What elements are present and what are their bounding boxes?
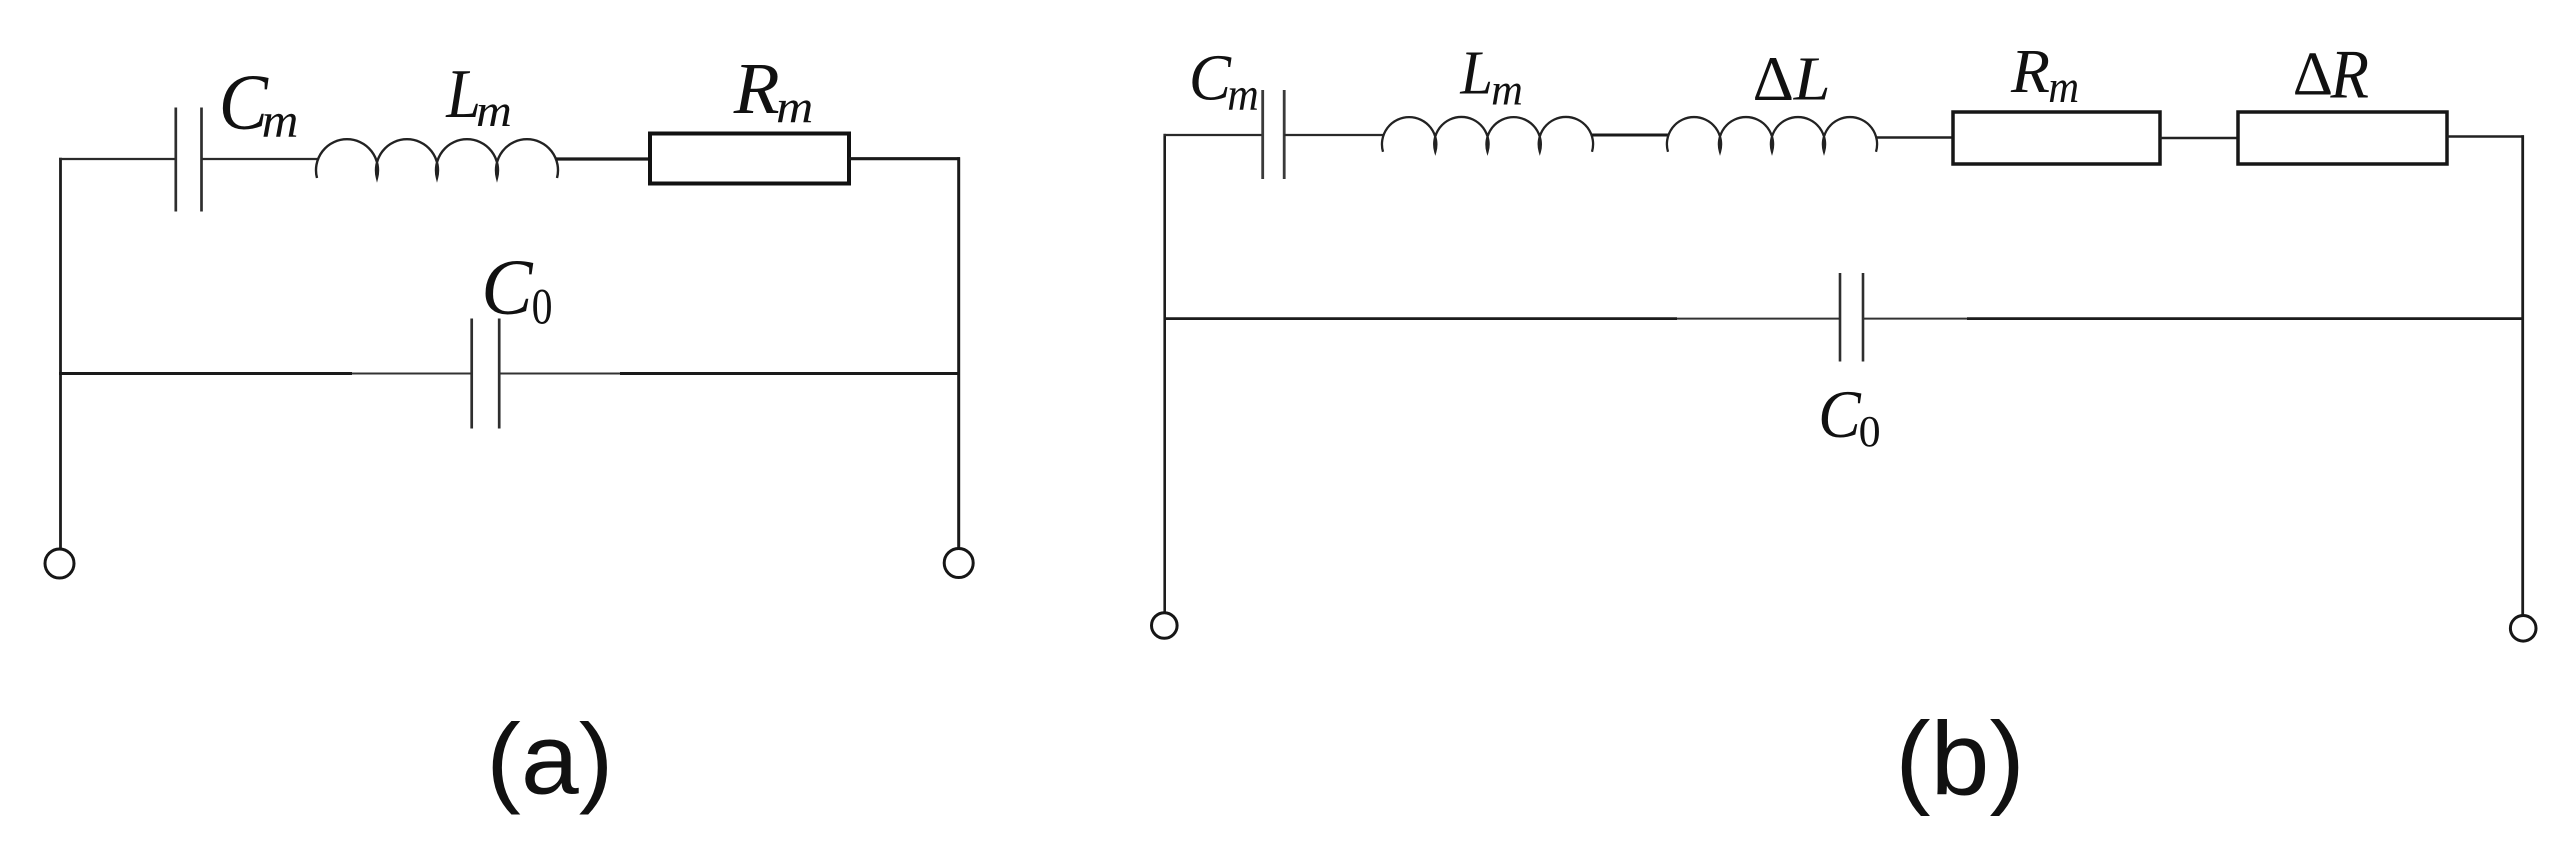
wire top (a): rail to Cm bbox=[59, 158, 176, 160]
label C0 (a) bbox=[481, 244, 552, 335]
svg-text:C: C bbox=[481, 244, 533, 331]
terminal circle (b) right bbox=[2510, 616, 2536, 642]
wire bottom (b): thick part to right rail bbox=[1967, 317, 2524, 320]
wire top (b): dR to right rail bbox=[2447, 135, 2524, 138]
terminal circle (b) left bbox=[1152, 613, 1178, 639]
wire top (a): Cm to Lm bbox=[202, 158, 319, 160]
svg-text:R: R bbox=[2010, 37, 2050, 106]
wire bottom (a): C0 to right, thin part bbox=[499, 373, 620, 375]
svg-text:C: C bbox=[1189, 40, 1232, 114]
wire bottom (a): thin part to C0 bbox=[352, 373, 472, 375]
inductor dL (b) bbox=[1667, 117, 1877, 152]
wire bottom (a): thick part to right rail bbox=[620, 372, 960, 375]
wire bottom (a): rail to C0, thick part bbox=[59, 372, 352, 375]
wire left rail (a) bbox=[59, 158, 62, 550]
resistor dR (b) bbox=[2238, 112, 2447, 164]
inductor Lm (a) bbox=[316, 139, 558, 178]
resistor Rm (a) bbox=[650, 134, 849, 184]
capacitor C0 (b) bbox=[1840, 273, 1863, 362]
wire bottom (b): C0 to right, thin part bbox=[1863, 318, 1967, 320]
wire top (b): dL to Rm bbox=[1876, 136, 1954, 139]
label Cm (a) bbox=[219, 59, 299, 147]
terminal circle (a) left bbox=[45, 549, 74, 578]
label Rm (b) bbox=[2010, 37, 2079, 112]
wire right rail (b) bbox=[2521, 135, 2524, 615]
svg-text:Δ: Δ bbox=[2293, 40, 2333, 109]
inductor Lm (b) bbox=[1382, 117, 1593, 152]
resistor Rm (b) bbox=[1953, 112, 2160, 164]
label dR (b) bbox=[2293, 36, 2369, 113]
terminal circle (a) right bbox=[944, 549, 973, 578]
svg-text:R: R bbox=[2330, 36, 2369, 113]
svg-text:m: m bbox=[262, 92, 299, 147]
svg-text:R: R bbox=[733, 49, 780, 130]
svg-text:m: m bbox=[1491, 65, 1523, 114]
wire top (b): Rm to dR bbox=[2160, 137, 2239, 140]
label Rm (a) bbox=[733, 49, 814, 133]
wire top (a): Rm to right rail bbox=[849, 157, 960, 160]
wire top (b): Lm to dL bbox=[1592, 134, 1668, 137]
capacitor Cm (a) bbox=[176, 108, 202, 212]
wire top (a): Lm to Rm bbox=[556, 157, 651, 160]
svg-text:m: m bbox=[1227, 69, 1259, 121]
svg-text:m: m bbox=[476, 86, 512, 137]
svg-text:L: L bbox=[1459, 39, 1493, 108]
svg-text:m: m bbox=[2048, 63, 2079, 112]
label Lm (b) bbox=[1459, 39, 1522, 115]
wire top (b): Cm to Lm bbox=[1284, 134, 1384, 136]
capacitor Cm (b) bbox=[1263, 90, 1285, 179]
svg-text:C: C bbox=[1818, 377, 1862, 452]
svg-text:m: m bbox=[776, 81, 813, 133]
wire top (b): rail to Cm bbox=[1164, 134, 1264, 136]
capacitor C0 (a) bbox=[472, 319, 500, 429]
label Lm (a) bbox=[445, 56, 512, 137]
label C0 (b) bbox=[1818, 377, 1881, 455]
svg-text:0: 0 bbox=[532, 279, 553, 336]
svg-text:L: L bbox=[1793, 43, 1831, 113]
svg-text:(a): (a) bbox=[486, 703, 613, 815]
svg-text:Δ: Δ bbox=[1753, 44, 1794, 114]
wire left rail (b) bbox=[1163, 134, 1166, 612]
label dL (b) bbox=[1753, 43, 1831, 114]
svg-text:0: 0 bbox=[1859, 407, 1881, 456]
svg-text:(b): (b) bbox=[1895, 702, 2025, 818]
label Cm (b) bbox=[1189, 40, 1259, 120]
wire bottom (b): thin part to C0 bbox=[1677, 318, 1840, 320]
wire bottom (b): rail to C0, thick part bbox=[1164, 317, 1678, 320]
wire right rail (a) bbox=[957, 157, 960, 548]
